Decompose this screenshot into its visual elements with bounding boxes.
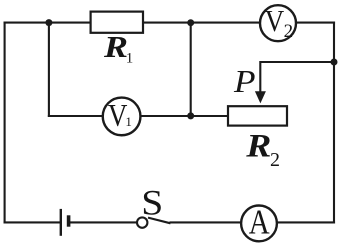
label R1 — [103, 30, 133, 66]
wire node to V1 — [49, 115, 103, 117]
wiper arrowhead — [255, 91, 266, 103]
wire V1 to R2 — [141, 115, 228, 117]
svg-text:S: S — [141, 183, 163, 223]
svg-text:2: 2 — [270, 149, 280, 171]
voltmeter V2 — [260, 5, 296, 41]
voltmeter V1 — [103, 98, 141, 136]
wire bottom-left to battery — [5, 221, 59, 223]
wire branch vertical from node A — [48, 23, 50, 116]
wire ammeter to bottom-right corner — [278, 221, 335, 223]
svg-text:1: 1 — [126, 50, 134, 66]
node junction middle — [187, 112, 194, 119]
battery — [61, 209, 69, 236]
node junction top-left — [45, 19, 52, 26]
label V2 — [265, 4, 293, 42]
label V1 — [108, 99, 132, 134]
switch S — [137, 217, 171, 227]
wire battery to switch — [70, 221, 135, 223]
wire left vertical — [4, 23, 6, 223]
wire R1 to V2 — [143, 22, 260, 24]
wire wiper from right vertical — [260, 62, 334, 93]
wire top-left horizontal — [5, 22, 91, 24]
svg-text:P: P — [233, 65, 256, 100]
svg-text:V: V — [265, 4, 284, 38]
svg-text:A: A — [249, 202, 270, 241]
svg-text:1: 1 — [125, 114, 131, 129]
svg-text:2: 2 — [284, 21, 294, 42]
svg-text:R: R — [103, 30, 128, 64]
wire mid vertical — [190, 23, 192, 116]
wire switch to ammeter — [171, 221, 241, 223]
label R2 — [245, 127, 280, 171]
resistor R2 rheostat — [228, 106, 287, 125]
wire top-right from V2 to corner — [297, 22, 335, 24]
wire right vertical — [333, 23, 335, 223]
resistor R1 — [91, 12, 143, 33]
node junction top-middle — [187, 19, 194, 26]
svg-text:R: R — [245, 127, 271, 164]
node junction right — [331, 59, 338, 66]
ammeter A — [241, 206, 277, 242]
